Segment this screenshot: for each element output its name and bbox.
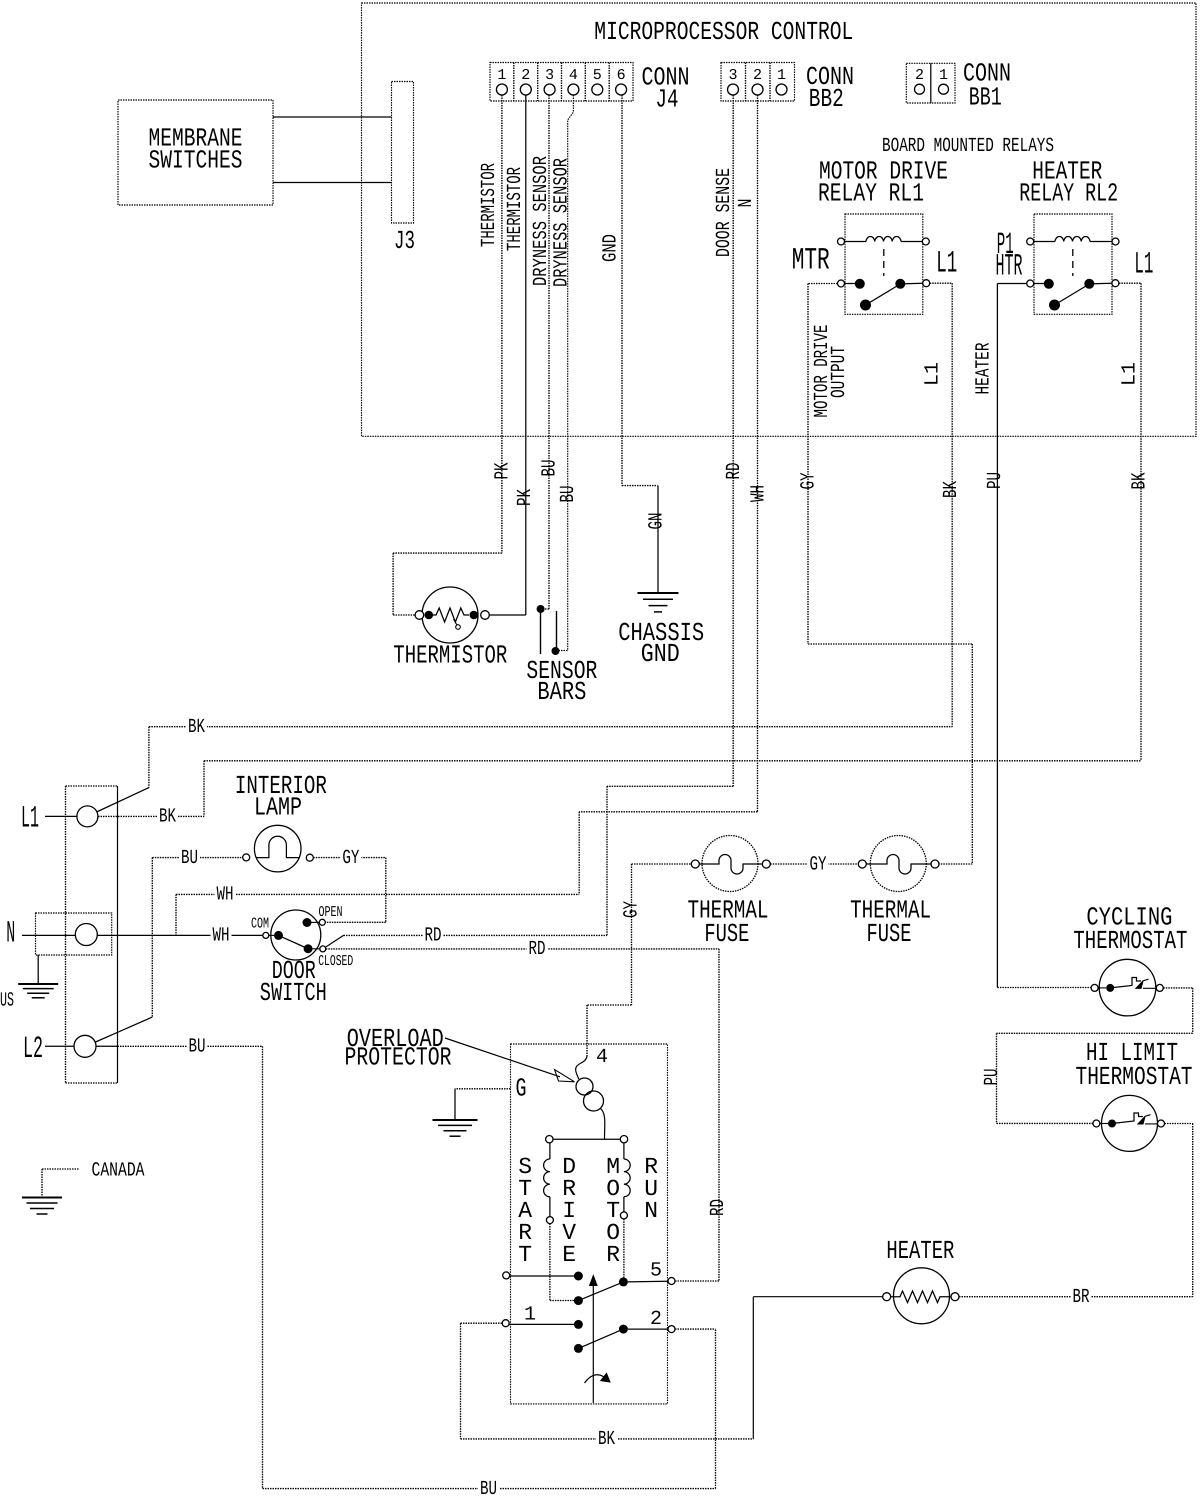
wire PK pin2 to thermistor (solid): [525, 95, 527, 615]
svg-text:PK: PK: [492, 463, 515, 480]
svg-text:OPEN: OPEN: [319, 904, 343, 921]
svg-text:BR: BR: [1073, 1286, 1090, 1309]
wire BR heater to hi-limit: [959, 1296, 1193, 1298]
thermal fuse 1 body: [702, 836, 758, 892]
relay RL2 outline: [1034, 214, 1112, 314]
overload pointer arrowhead: [555, 1070, 575, 1082]
motor contact 5: [619, 1277, 628, 1286]
wire BK L1 lower run: [203, 761, 205, 817]
motor rotation arrow: [585, 1375, 608, 1383]
svg-text:4: 4: [596, 1046, 608, 1069]
wire BU lamp vertical: [151, 858, 153, 1018]
svg-text:THERMISTOR: THERMISTOR: [504, 167, 527, 251]
svg-text:RD: RD: [723, 463, 746, 480]
junction WH vertical: [175, 894, 177, 935]
label BK (heater feed): [596, 1432, 617, 1445]
overload protector outlet curve: [601, 1109, 605, 1140]
relay RL1 fixed contact left: [855, 279, 865, 289]
svg-text:THERMOSTAT: THERMOSTAT: [1076, 1062, 1193, 1092]
svg-text:2: 2: [521, 67, 530, 84]
relay RL2 contact row: [1034, 283, 1044, 285]
motor start contact row: [510, 1275, 574, 1277]
svg-text:BU: BU: [189, 1036, 206, 1059]
relay RL1 outline: [845, 214, 923, 314]
relay RL2 fixed contact left: [1044, 279, 1054, 289]
cycling thermostat lever: [1110, 978, 1141, 988]
canada ground symbol: [22, 1197, 62, 1199]
connector J4 outline: [490, 63, 633, 102]
motor actuator arrowhead: [590, 1276, 597, 1286]
svg-text:E: E: [562, 1242, 576, 1268]
relay RL1 fixed contact right: [895, 279, 905, 289]
svg-text:BU: BU: [181, 847, 198, 870]
svg-text:HEATER: HEATER: [973, 343, 996, 395]
relay RL2 armature: [1055, 284, 1090, 305]
svg-text:THERMISTOR: THERMISTOR: [393, 641, 507, 671]
svg-text:2: 2: [753, 67, 762, 84]
wire WH neutral (BB2 pin2): [757, 95, 759, 812]
interior lamp filament: [256, 836, 299, 857]
svg-text:RELAY RL1: RELAY RL1: [818, 178, 924, 208]
svg-text:SWITCH: SWITCH: [260, 978, 327, 1008]
relay RL1 coil: [866, 236, 901, 241]
svg-text:PU: PU: [984, 472, 1007, 489]
svg-text:GN: GN: [646, 513, 669, 530]
motor wire to terminal 2: [628, 1328, 668, 1330]
svg-text:1: 1: [939, 67, 948, 84]
svg-text:PU: PU: [981, 1069, 1004, 1086]
microprocessor control board outline: [362, 3, 1197, 436]
conn J4 cell divider 1: [513, 63, 515, 102]
svg-text:T: T: [518, 1242, 532, 1268]
sensor bar right: [556, 611, 558, 651]
svg-text:L1: L1: [1134, 248, 1153, 283]
svg-text:R: R: [606, 1242, 620, 1268]
connector J3: [392, 82, 414, 224]
label BK (at L1): [157, 810, 178, 823]
heater terminal right: [951, 1293, 959, 1301]
wire RD door sense (BB2 pin3): [732, 95, 734, 786]
motor winding junction: [553, 1138, 621, 1140]
thermal fuse 2 terminal right: [931, 860, 939, 868]
svg-text:BARS: BARS: [537, 677, 586, 707]
relay RL1 core: [883, 249, 885, 276]
svg-text:3: 3: [728, 67, 737, 84]
svg-text:OUTPUT: OUTPUT: [828, 346, 851, 398]
door switch terminal COM: [263, 932, 269, 938]
relay RL1 contact row: [845, 283, 855, 285]
relay RL1 coil terminal left: [838, 238, 845, 245]
svg-text:L1: L1: [21, 802, 39, 837]
motor start winding: [549, 1143, 551, 1159]
relay RL2 terminal HTR: [1027, 280, 1034, 287]
svg-text:BK: BK: [598, 1428, 615, 1451]
relay RL2 core: [1072, 249, 1074, 276]
svg-text:RD: RD: [707, 1199, 730, 1216]
svg-text:3: 3: [545, 67, 554, 84]
connector BB2 outline: [721, 63, 795, 102]
membrane switches block: [118, 100, 273, 205]
motor contact row 1: [509, 1323, 574, 1325]
svg-text:GY: GY: [798, 473, 821, 490]
svg-text:N: N: [644, 1198, 658, 1224]
wire BU pin3 to sensor bar: [548, 95, 550, 609]
relay RL1 armature: [866, 284, 901, 305]
hi limit thermostat body: [1102, 1095, 1158, 1151]
svg-text:J3: J3: [394, 226, 415, 256]
terminal L1: [77, 806, 98, 827]
label BK (upper run): [186, 720, 207, 733]
cycling thermostat body: [1099, 959, 1156, 1016]
svg-text:BU: BU: [539, 460, 562, 477]
wire GY lamp to door switch: [313, 857, 386, 859]
svg-text:J4: J4: [656, 85, 679, 115]
wire BK heater feed: [460, 1323, 462, 1439]
svg-text:GND: GND: [641, 639, 680, 669]
wire membrane to J3 (upper): [273, 116, 392, 118]
svg-text:WH: WH: [748, 485, 771, 502]
svg-text:BB2: BB2: [809, 84, 844, 114]
svg-text:WH: WH: [217, 884, 234, 907]
svg-text:BOARD MOUNTED RELAYS: BOARD MOUNTED RELAYS: [882, 135, 1054, 158]
heater element: [891, 1291, 951, 1303]
hi limit thermostat contact: [1100, 1123, 1108, 1125]
svg-text:RELAY RL2: RELAY RL2: [1019, 178, 1118, 208]
wire RD motor run: [326, 948, 719, 950]
motor terminal 5: [668, 1278, 675, 1285]
thermistor terminal left: [415, 611, 424, 620]
conn BB1 pin 1 circle: [939, 84, 949, 94]
door switch lever: [279, 935, 309, 948]
US ground symbol: [37, 955, 39, 984]
svg-text:5: 5: [650, 1260, 662, 1283]
motor ground wire: [455, 1088, 511, 1090]
svg-text:5: 5: [593, 67, 602, 84]
wire PU cycling to hi-limit: [1163, 987, 1192, 989]
svg-text:GY: GY: [342, 847, 359, 870]
thermistor body: [422, 587, 478, 643]
svg-text:2: 2: [915, 67, 924, 84]
hi limit thermostat lever: [1112, 1113, 1143, 1124]
svg-text:2: 2: [650, 1308, 662, 1331]
wire BK from RL1 L1: [930, 282, 953, 284]
cycling thermostat contact: [1098, 987, 1106, 989]
conn BB1 pin 2 circle: [915, 84, 925, 94]
svg-text:RD: RD: [425, 925, 442, 948]
relay RL1 coil wire: [845, 241, 866, 243]
svg-text:THERMOSTAT: THERMOSTAT: [1073, 926, 1187, 956]
svg-text:1: 1: [524, 1304, 536, 1327]
wire WH horizontal: [176, 893, 579, 895]
thermistor terminal right: [481, 611, 490, 620]
svg-text:MICROPROCESSOR CONTROL: MICROPROCESSOR CONTROL: [594, 17, 853, 47]
cycling thermostat terminal left: [1091, 984, 1098, 991]
motor terminal 2: [668, 1326, 675, 1333]
overload protector circle lower: [584, 1091, 604, 1111]
wire RD to door sense: [344, 934, 608, 936]
conn J4 pin 5 circle: [592, 84, 603, 95]
svg-text:SWITCHES: SWITCHES: [149, 146, 243, 176]
conn BB2 cell divider b: [769, 63, 771, 102]
hi limit thermostat terminal left: [1093, 1120, 1100, 1127]
door switch body: [271, 910, 321, 960]
wire BU pin4 to sensor bar: [560, 95, 574, 651]
wire L2 diagonal: [96, 1017, 153, 1042]
svg-text:BB1: BB1: [969, 83, 1002, 113]
motor terminal 1: [502, 1320, 509, 1327]
svg-text:4: 4: [569, 67, 578, 84]
wire BK L1 upper run: [148, 727, 150, 788]
wire BU L2 to motor: [262, 1046, 264, 1488]
conn J4 pin 4 circle: [568, 84, 579, 95]
relay RL1 terminal MTR: [838, 280, 845, 287]
overload pointer line: [445, 1038, 560, 1077]
door switch contact CLOSED: [304, 944, 313, 953]
interior lamp body: [254, 825, 301, 872]
heater terminal left: [883, 1293, 891, 1301]
wire BU to lamp: [152, 857, 242, 859]
thermal fuse 1 element: [699, 855, 762, 875]
cycling thermostat terminal right: [1156, 984, 1163, 991]
svg-text:RD: RD: [529, 938, 546, 961]
terminal block outline: [65, 786, 67, 1083]
wire GY fuse to motor: [632, 863, 692, 865]
conn BB2 cell divider a: [745, 63, 747, 102]
wire PU heater drive (solid): [997, 283, 1026, 285]
svg-text:L1: L1: [1119, 362, 1142, 386]
door switch contact COM: [274, 931, 283, 940]
thermal fuse 2 terminal left: [858, 860, 866, 868]
conn BB2 pin 2 circle: [752, 84, 763, 95]
label BR: [1071, 1290, 1092, 1303]
label RD (door sense horizontal): [423, 929, 444, 942]
wire N to door switch COM (solid): [97, 934, 262, 936]
svg-text:COM: COM: [251, 916, 269, 933]
motor start switch terminal: [503, 1272, 510, 1279]
thermal fuse 2 element: [866, 855, 931, 875]
svg-text:BK: BK: [159, 806, 176, 829]
relay RL1 coil terminal right: [922, 238, 929, 245]
svg-text:L1: L1: [922, 362, 945, 386]
wire BK from RL2 L1: [1119, 282, 1141, 284]
thermistor contact dots: [425, 611, 434, 620]
neutral terminal box: [36, 913, 112, 955]
motor outline: [511, 1044, 668, 1404]
conn BB2 pin 3 circle: [728, 84, 739, 95]
svg-text:FUSE: FUSE: [867, 919, 912, 949]
svg-text:HEATER: HEATER: [886, 1236, 954, 1266]
motor run winding: [623, 1143, 625, 1159]
terminal N lead: [22, 934, 75, 936]
svg-text:GY: GY: [621, 901, 644, 918]
terminal L2 lead: [45, 1045, 74, 1047]
wire membrane to J3 (lower): [273, 182, 392, 184]
label BU (bottom): [478, 1482, 499, 1495]
svg-text:THERMISTOR: THERMISTOR: [478, 163, 501, 247]
motor switch lever lower: [578, 1329, 623, 1348]
conn J4 pin 2 circle: [520, 84, 531, 95]
relay RL2 terminal L1: [1112, 280, 1119, 287]
svg-text:MTR: MTR: [792, 244, 830, 279]
thermal fuse 1 terminal right: [762, 860, 770, 868]
door switch contact OPEN: [303, 918, 312, 927]
relay RL2 coil terminal left: [1027, 238, 1034, 245]
label WH (on neutral line): [211, 929, 232, 942]
label RD (motor horizontal): [527, 942, 548, 955]
relay RL2 fixed contact right: [1084, 279, 1094, 289]
label GY (between fuses): [808, 858, 829, 871]
relay RL2 coil terminal right: [1112, 238, 1119, 245]
svg-text:HTR: HTR: [996, 250, 1023, 285]
canada ground lead: [42, 1168, 79, 1170]
svg-text:DOOR SENSE: DOOR SENSE: [713, 168, 736, 257]
terminal block right edge: [117, 786, 119, 1083]
door switch terminal OPEN: [319, 919, 325, 925]
wire GY motor drive output: [808, 283, 838, 285]
conn J4 cell divider 3: [561, 63, 563, 102]
wire PU to cycling thermostat: [997, 987, 1091, 989]
wire PK pin1 to thermistor: [501, 95, 503, 553]
svg-text:DRYNESS SENSOR: DRYNESS SENSOR: [551, 158, 574, 287]
svg-text:BK: BK: [188, 716, 205, 739]
wire L2 to BU: [96, 1045, 118, 1047]
chassis ground symbol: [657, 486, 659, 593]
svg-text:PROTECTOR: PROTECTOR: [345, 1043, 452, 1073]
conn BB2 pin 1 circle: [776, 84, 787, 95]
wire RD closed diagonal: [326, 935, 344, 947]
door switch terminal CLOSED: [320, 946, 326, 952]
svg-text:US: US: [0, 990, 14, 1013]
svg-text:WH: WH: [213, 925, 230, 948]
svg-text:G: G: [516, 1074, 527, 1104]
label BU (at L2): [187, 1040, 208, 1053]
label BU (lamp): [179, 851, 200, 864]
wire GND pin6 to chassis: [621, 95, 623, 486]
label WH (horizontal): [215, 888, 236, 901]
relay RL2 coil: [1055, 236, 1090, 241]
wire GY between fuses: [770, 863, 858, 865]
conn J4 pin 1 circle: [496, 84, 507, 95]
relay RL1 terminal L1: [923, 280, 930, 287]
svg-text:BU: BU: [480, 1478, 497, 1496]
svg-text:CLOSED: CLOSED: [318, 953, 353, 970]
terminal L1 lead: [45, 815, 77, 817]
motor wire to terminal 5: [628, 1280, 668, 1283]
conn J4 cell divider 2: [537, 63, 539, 102]
svg-text:L2: L2: [23, 1032, 43, 1067]
sensor bar left: [540, 609, 542, 654]
heater body: [894, 1268, 950, 1324]
svg-text:6: 6: [617, 67, 626, 84]
wire L1 diagonal: [97, 788, 149, 812]
conn J4 cell divider 4: [584, 63, 586, 102]
motor switch pivot contact: [574, 1296, 583, 1305]
wire L1 to BK: [98, 815, 204, 817]
terminal L2: [74, 1035, 96, 1057]
svg-text:FUSE: FUSE: [704, 919, 749, 949]
conn BB1 cell divider: [930, 63, 932, 103]
conn J4 pin 6 circle: [616, 84, 627, 95]
svg-text:LAMP: LAMP: [254, 793, 302, 823]
svg-text:L1: L1: [936, 247, 957, 282]
svg-text:N: N: [6, 917, 15, 952]
thermal fuse 1 terminal left: [691, 860, 699, 868]
svg-text:BK: BK: [1129, 473, 1152, 490]
wire 4 to overload: [576, 1056, 587, 1079]
motor switch lever upper: [578, 1282, 623, 1301]
label GY (lamp): [340, 851, 361, 864]
motor ground symbol: [454, 1089, 456, 1120]
terminal N: [75, 924, 97, 946]
svg-text:GND: GND: [600, 234, 623, 262]
svg-text:CANADA: CANADA: [92, 1160, 145, 1183]
svg-text:1: 1: [497, 67, 506, 84]
thermistor resistor element: [433, 608, 469, 622]
connector BB1 outline: [906, 63, 955, 103]
svg-text:BU: BU: [557, 486, 580, 503]
relay RL2 coil wire: [1034, 241, 1055, 243]
svg-text:1: 1: [777, 67, 786, 84]
conn J4 pin 3 circle: [544, 84, 555, 95]
overload protector circle upper: [576, 1078, 593, 1095]
svg-text:N: N: [735, 199, 758, 208]
wire hi-limit to heater BR: [1165, 1123, 1193, 1125]
thermal fuse 2 body: [870, 836, 926, 892]
thermistor temperature mark: [454, 619, 457, 625]
conn J4 cell divider 5: [608, 63, 610, 102]
svg-text:GY: GY: [810, 853, 827, 876]
motor contact 2: [619, 1325, 628, 1334]
interior lamp terminal right: [306, 854, 313, 861]
svg-text:BK: BK: [940, 481, 963, 498]
svg-text:PK: PK: [514, 489, 537, 506]
motor actuator shaft: [592, 1284, 594, 1403]
hi limit thermostat terminal right: [1158, 1120, 1165, 1127]
interior lamp terminal left: [243, 854, 250, 861]
